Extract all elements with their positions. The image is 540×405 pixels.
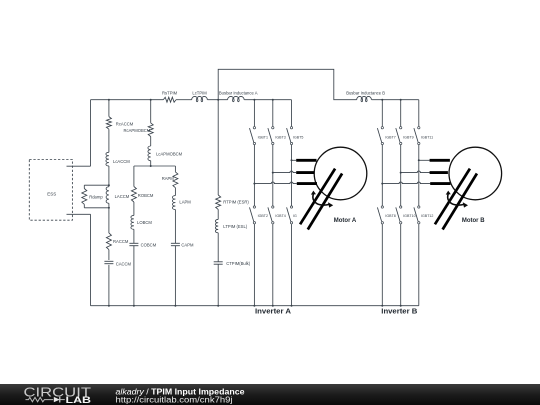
svg-text:Busbar Inductance B: Busbar Inductance B — [346, 90, 385, 95]
svg-text:IGBT1: IGBT1 — [258, 136, 268, 140]
svg-text:CAPM: CAPM — [181, 242, 194, 247]
svg-text:RsTPIM: RsTPIM — [162, 90, 178, 95]
svg-text:RcAPMOBCM: RcAPMOBCM — [124, 128, 151, 133]
svg-text:LACCM: LACCM — [115, 194, 130, 199]
svg-text:CACCM: CACCM — [116, 262, 132, 267]
svg-text:Motor B: Motor B — [462, 218, 485, 224]
svg-text:http://circuitlab.com/cnk7h9j: http://circuitlab.com/cnk7h9j — [116, 396, 233, 405]
svg-text:IGBT11: IGBT11 — [421, 136, 433, 140]
svg-text:IGBT8: IGBT8 — [385, 214, 395, 218]
svg-text:Rdamp: Rdamp — [89, 194, 103, 199]
svg-text:RTPIM (ESR): RTPIM (ESR) — [223, 200, 249, 205]
svg-text:IGBT5: IGBT5 — [293, 136, 303, 140]
svg-text:IGBT7: IGBT7 — [385, 136, 395, 140]
svg-text:Busbar Inductance A: Busbar Inductance A — [219, 90, 258, 95]
svg-text:ESS: ESS — [47, 191, 56, 196]
svg-text:RAPM: RAPM — [162, 176, 175, 181]
svg-text:Motor A: Motor A — [334, 218, 357, 224]
svg-text:LAPM: LAPM — [179, 200, 191, 205]
svg-text:LAB: LAB — [66, 395, 92, 405]
svg-text:Inverter B: Inverter B — [381, 307, 417, 316]
svg-text:RcACCM: RcACCM — [116, 121, 134, 126]
svg-text:IGBT3: IGBT3 — [275, 136, 285, 140]
svg-text:LcTPIM: LcTPIM — [192, 90, 207, 95]
svg-text:IGBT9: IGBT9 — [403, 136, 413, 140]
svg-text:LOBCM: LOBCM — [137, 220, 152, 225]
svg-text:IGBT2: IGBT2 — [258, 214, 268, 218]
svg-text:Inverter A: Inverter A — [255, 307, 291, 316]
svg-text:IGBT4: IGBT4 — [275, 214, 285, 218]
svg-text:ROBCM: ROBCM — [138, 193, 154, 198]
svg-text:IGBT12: IGBT12 — [421, 214, 433, 218]
svg-text:LcAPMOBCM: LcAPMOBCM — [156, 152, 183, 157]
svg-text:LcACCM: LcACCM — [113, 159, 130, 164]
svg-text:LTPIM (ESL): LTPIM (ESL) — [223, 224, 247, 229]
svg-text:IG: IG — [293, 214, 297, 218]
svg-text:CTPIM(Bulk): CTPIM(Bulk) — [226, 261, 251, 266]
svg-text:IGBT10: IGBT10 — [403, 214, 415, 218]
svg-text:RACCM: RACCM — [113, 239, 129, 244]
svg-text:COBCM: COBCM — [141, 242, 157, 247]
